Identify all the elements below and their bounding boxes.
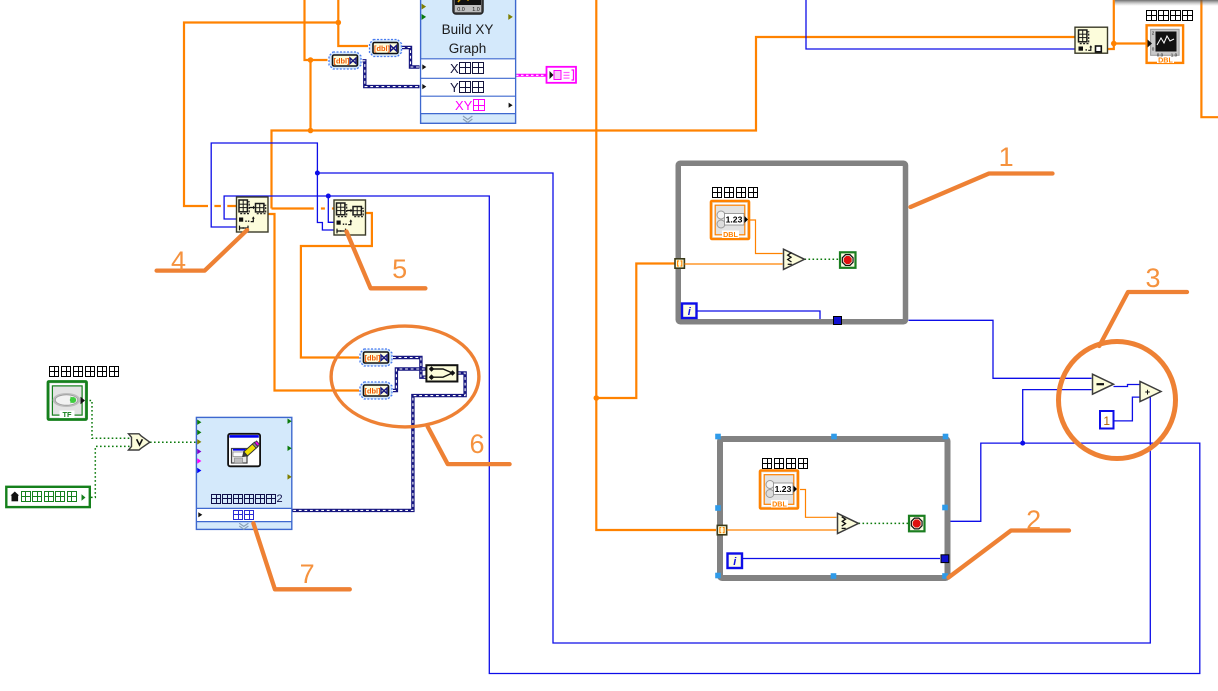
wire dynamic-data: upper dbl-convert to Build XY Graph X input <box>402 48 420 68</box>
svg-text:1.0: 1.0 <box>472 7 480 13</box>
wire dynamic-data: circle6 lower dbl-convert to merge upper input <box>393 369 426 391</box>
label: X input row <box>450 62 485 75</box>
convert-to-dynamic-data node upper in circle 6 <box>360 349 392 366</box>
label: write measurement file 2 <box>211 494 283 505</box>
svg-text:2: 2 <box>1026 505 1041 535</box>
floppy part <box>232 449 248 464</box>
svg-text:DBL: DBL <box>772 500 787 509</box>
wire dynamic-data: merge signals output down to write-file signal input <box>293 373 466 510</box>
svg-text:0: 0 <box>1152 47 1155 52</box>
junction dot blue 1022,443 <box>1020 441 1025 446</box>
decrement (subtract) node <box>1093 374 1114 394</box>
junction dot orange 338,22 <box>336 20 342 26</box>
label: Y input row <box>450 81 485 94</box>
Build XY Graph express VI <box>421 0 516 123</box>
reshape array node 5 <box>334 200 366 235</box>
annotation circle 3 <box>1059 342 1176 459</box>
annotation line 5 <box>347 232 426 289</box>
junction dot orange 310,60 <box>308 57 314 63</box>
wire blue: loop1 i terminal to bottom tunnel <box>697 311 820 320</box>
while loop 1 (max wavelength) frame <box>678 163 905 322</box>
svg-text:1: 1 <box>1103 414 1110 428</box>
junction dot orange 1113,43 <box>1111 41 1117 47</box>
label: Build XY title <box>420 23 515 37</box>
greater-or-equal comparator in loop2 <box>838 513 859 533</box>
signal row input arrow <box>198 512 202 517</box>
Build XY Graph row input arrows <box>422 64 426 69</box>
loop2 left indexing tunnel [] <box>717 525 726 534</box>
write measurement file 2 express VI <box>196 417 291 529</box>
wire blue: top-right vertical x=806 into index-array lower input <box>806 0 1075 49</box>
junction dot blue 328,196 <box>326 194 331 199</box>
wire blue: branch up to subtract lower input <box>1023 390 1092 444</box>
svg-text:4: 4 <box>171 246 186 276</box>
svg-text:1.23: 1.23 <box>775 484 792 494</box>
loop2 right blue tunnel <box>941 555 949 563</box>
wire boolean: OR gate output to write-file enable input <box>150 441 196 443</box>
annotation line 7 <box>253 523 349 589</box>
wire orange: branch down from source A to y=130.5 bus <box>309 60 311 131</box>
label: XY graph row <box>455 99 485 112</box>
label: wavelength range store <box>48 366 120 378</box>
reshape array node 4 <box>237 197 269 232</box>
loop2 inside wire orange to greater-equal lower input <box>727 529 837 531</box>
wire blue: branch from 317,173 into node5 length input <box>317 173 335 230</box>
svg-text:7: 7 <box>300 559 315 589</box>
annotation ellipse 6 <box>331 326 479 427</box>
stop button 1 <box>840 252 856 267</box>
svg-text:5: 5 <box>392 254 407 284</box>
annotation line 1 <box>911 174 1053 208</box>
window shadow top right <box>1115 0 1218 6</box>
label: signal row <box>233 510 255 521</box>
label: max wavelength <box>711 187 759 199</box>
wire boolean: less-equal output to stop button 1 <box>805 258 840 260</box>
wire orange: far right vertical x=1201.4 <box>1201 0 1218 117</box>
wire crossing gaps on orange node4 input <box>208 205 214 208</box>
loop1 iteration terminal i <box>682 304 697 319</box>
wire dynamic-data: circle6 upper dbl-convert to merge lower input <box>393 358 426 378</box>
label: waveform chart <box>1146 10 1194 22</box>
loop1 left indexing tunnel [] <box>675 259 684 268</box>
svg-text:1: 1 <box>999 142 1014 172</box>
wire orange: branch to while loop 1 left tunnel <box>596 264 674 399</box>
loop1 numeric control wire to less-equal upper input <box>750 220 783 254</box>
svg-text:6: 6 <box>469 429 484 459</box>
collapse chevron <box>239 523 248 526</box>
wire orange: node4 output down to lower dbl-convert in circle 6 <box>268 214 359 391</box>
global variable: store both <box>6 487 90 507</box>
svg-text:+: + <box>1145 387 1150 397</box>
numeric constant 1 <box>1100 411 1114 429</box>
wire boolean: greater-equal output to stop button 2 <box>859 522 909 524</box>
numeric control: min wavelength (1.23 DBL) <box>760 471 798 509</box>
loop2 iteration terminal i <box>728 554 743 569</box>
wire dynamic-data: lower dbl-convert to Build XY Graph Y input <box>363 61 420 87</box>
svg-text:0.0: 0.0 <box>457 7 465 13</box>
label: min wavelength <box>761 458 809 470</box>
junction dot orange 596,398 <box>594 395 600 401</box>
loop1 inside wire orange to less-equal lower input <box>684 263 782 265</box>
OR gate <box>129 434 150 450</box>
wire blue: increment output feedback loop to node4/node5 length inputs <box>211 143 1150 643</box>
loop1 bottom blue tunnel <box>834 317 842 325</box>
Build XY Graph edge arrows <box>422 4 427 10</box>
svg-text:3: 3 <box>1145 263 1160 293</box>
wire blue: constant 1 to increment lower input <box>1114 397 1140 421</box>
waveform chart terminal <box>1147 25 1184 63</box>
svg-text:[dbl]: [dbl] <box>333 57 350 66</box>
annotation line 6 <box>428 427 510 464</box>
wire blue: loop2 iteration big feedback loop to node4/node5 index inputs <box>224 196 1200 674</box>
junction dot orange 310,130 <box>308 128 314 134</box>
svg-text:TF: TF <box>62 410 72 419</box>
stop button 2 <box>909 516 925 532</box>
Build XY Graph collapse chevron <box>463 116 472 120</box>
svg-text:[dbl]: [dbl] <box>364 387 381 396</box>
wire blue: loop2 i terminal to right tunnel <box>743 558 941 560</box>
loop2 selection handles <box>715 434 721 440</box>
wire orange: 2D-array bus y=130.5 up to index-array top right <box>272 37 1075 209</box>
wire blue: branch from 328,196 into node5 index input <box>328 196 335 222</box>
merge signals node <box>426 365 457 381</box>
wire orange: index-array output to waveform chart via vertical x=1113.8 <box>1107 0 1114 49</box>
XY graph terminal (magenta) <box>547 67 577 83</box>
svg-text:[dbl]: [dbl] <box>374 44 391 53</box>
house icon <box>11 492 20 496</box>
svg-text:[dbl]: [dbl] <box>364 354 381 363</box>
write file VI edge arrows <box>197 419 201 424</box>
wire orange: bus into reshape node5 top input (crossing gaps) <box>272 207 314 209</box>
increment (+1) node <box>1140 381 1161 401</box>
pencil <box>241 441 260 459</box>
svg-text:1.23: 1.23 <box>726 215 743 225</box>
Build XY Graph icon (clipped at top) <box>453 0 483 14</box>
convert-to-dynamic-data node lower in circle 6 <box>360 382 392 399</box>
less-or-equal comparator in loop1 <box>784 249 805 269</box>
convert-to-dynamic-data node lower (at Build XY Graph) <box>329 52 361 69</box>
wire orange: node5 output down to upper dbl-convert in circle 6 <box>301 213 372 358</box>
write file icon <box>228 434 260 467</box>
wire boolean: TF control to OR gate upper input <box>86 401 130 439</box>
wire blue: loop1 tunnel out to subtract upper input <box>909 320 1092 378</box>
svg-text:DBL: DBL <box>723 230 738 239</box>
wire orange: 2D-array source A vertical x=304.5 into lower dbl-convert <box>305 0 328 60</box>
annotation line 3 <box>1099 292 1187 346</box>
convert-to-dynamic-data node upper (at Build XY Graph) <box>370 40 402 57</box>
svg-text:2: 2 <box>1152 31 1155 36</box>
svg-text:DBL: DBL <box>1158 55 1173 64</box>
index array node top right <box>1075 27 1108 53</box>
junction dot blue 317,173 <box>315 171 320 176</box>
loop2 numeric control wire to greater-equal upper input <box>800 490 837 518</box>
numeric control: max wavelength (1.23 DBL) <box>711 201 749 239</box>
wire orange: main array feed x=596.3 down to while loop 2 tunnel <box>596 0 716 530</box>
wire boolean: global variable to OR gate lower input <box>87 446 130 497</box>
label: store both (global) <box>20 491 78 503</box>
wire orange: 2D-array source B vertical x=338.3 into upper dbl-convert <box>338 0 368 46</box>
while loop 2 (min wavelength) frame, selected <box>720 439 948 578</box>
annotation line 4 <box>157 230 248 271</box>
annotation line 2 <box>949 531 1070 578</box>
wire magenta: Build XY Graph output to XY graph terminal <box>516 74 546 77</box>
wire blue: subtract output to increment upper input <box>1114 385 1140 387</box>
boolean rocker control (wavelength range store) <box>48 382 87 420</box>
wire orange: from source B junction to reshape node4 top input <box>184 23 338 207</box>
